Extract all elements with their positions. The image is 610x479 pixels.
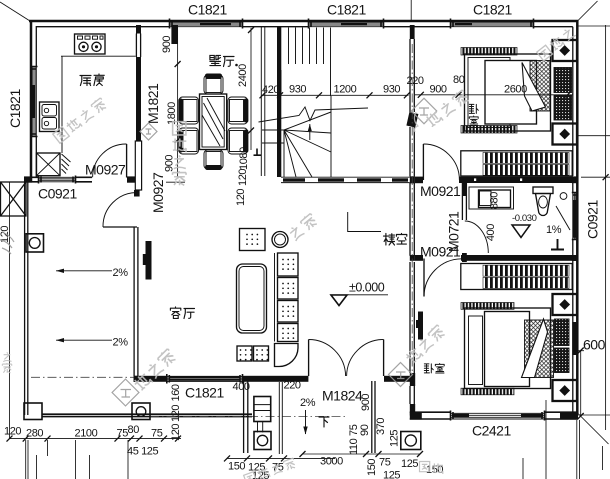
porch step edge lines xyxy=(279,382,282,454)
svg-text:120: 120 xyxy=(235,189,247,206)
svg-text:C1821: C1821 xyxy=(7,89,23,128)
wall left inner face xyxy=(35,26,37,177)
door M0927 kitchen (leaf+arc) xyxy=(93,144,127,178)
svg-text:400: 400 xyxy=(485,224,497,241)
svg-text:C1821: C1821 xyxy=(188,2,227,18)
svg-text:2100: 2100 xyxy=(75,428,98,440)
sofa corner piece xyxy=(275,344,299,367)
svg-text:-0.030: -0.030 xyxy=(512,213,537,224)
stair treads upper flight xyxy=(289,28,331,97)
bed1 pillow diamond area xyxy=(530,61,550,112)
wall hall/bath south / bedroom2 north xyxy=(415,255,573,261)
label keting (living) xyxy=(170,307,194,319)
interior dim line bedroom1 xyxy=(407,74,573,98)
watermark bottom-center xyxy=(243,457,296,479)
coffee table xyxy=(237,264,267,333)
svg-text:75: 75 xyxy=(379,457,391,469)
axis line terrace xyxy=(31,376,134,378)
porch column xyxy=(254,397,271,433)
wall bottom right (bedroom2 south) xyxy=(410,412,578,420)
door M0721 bathroom (arc) xyxy=(465,221,489,253)
level triangle xyxy=(512,225,530,238)
window C1821 top-2 xyxy=(308,19,384,29)
basin counter xyxy=(469,187,514,209)
svg-text:±0.000: ±0.000 xyxy=(349,281,385,295)
stair winder fan xyxy=(284,112,331,177)
terrace front edge xyxy=(42,414,252,416)
wall right inner face xyxy=(572,27,574,412)
dresser hatched 2a xyxy=(555,319,570,346)
axis line entry xyxy=(150,415,348,417)
TV on west wall xyxy=(143,241,152,280)
wall top outer xyxy=(29,20,578,23)
slope arrow 2% lower xyxy=(56,337,128,349)
slope leader line xyxy=(556,206,570,230)
svg-text:900: 900 xyxy=(360,394,372,411)
svg-text:220: 220 xyxy=(407,75,424,87)
svg-text:600: 600 xyxy=(583,337,606,353)
svg-text:120: 120 xyxy=(170,405,182,422)
bed1 quilt fold xyxy=(522,63,546,112)
bed2 quilt fold xyxy=(522,319,548,378)
svg-text:75: 75 xyxy=(151,428,163,440)
svg-text:900: 900 xyxy=(430,84,447,96)
dim line niche vertical xyxy=(177,27,179,177)
svg-text:120: 120 xyxy=(4,426,21,438)
svg-text:M0927: M0927 xyxy=(85,162,126,178)
bed2 rug tassel top xyxy=(461,303,514,310)
entry drain right xyxy=(401,432,421,450)
window C1821 top-1 xyxy=(169,19,243,29)
terrace drain pipe xyxy=(26,234,44,252)
svg-text:45 125: 45 125 xyxy=(127,446,159,458)
bed2 quilt xyxy=(485,312,530,387)
small tick near terrace door xyxy=(166,181,185,183)
corner diagonal bottom-right xyxy=(578,414,609,445)
svg-text:930: 930 xyxy=(289,84,306,96)
svg-text:930: 930 xyxy=(383,84,400,96)
svg-text:M0927: M0927 xyxy=(150,172,166,213)
svg-text:2600: 2600 xyxy=(504,84,527,96)
svg-text:M0921: M0921 xyxy=(420,183,461,199)
slope arrow 2% upper xyxy=(56,267,128,279)
wardrobe 2 xyxy=(461,264,572,290)
corner diagonal top-right xyxy=(578,1,598,21)
watermark vertical column (dining left) xyxy=(172,122,186,186)
watermark diamond + text (bedroom1 area) xyxy=(411,89,470,132)
svg-text:M1824: M1824 xyxy=(322,388,363,404)
terrace left edge rails xyxy=(25,182,28,415)
svg-text:160: 160 xyxy=(170,384,182,401)
bed1 rug tassel top xyxy=(461,48,517,56)
label woshi (bedroom) vertical xyxy=(469,104,478,125)
level mark +-0.000 xyxy=(330,281,388,306)
nightstand 2b xyxy=(553,380,578,401)
svg-text:1080: 1080 xyxy=(238,147,250,170)
svg-text:125: 125 xyxy=(389,430,401,447)
bed1 quilt xyxy=(485,61,537,125)
washbasin xyxy=(479,190,511,208)
dresser hatched 1b xyxy=(554,95,572,120)
watermark top right xyxy=(537,27,577,62)
watermark diagonal bottom-left xyxy=(132,348,177,393)
window C0921 kitchen xyxy=(38,176,76,184)
stair direction arrow xyxy=(308,124,312,140)
slope end marker xyxy=(551,239,564,250)
svg-text:400: 400 xyxy=(233,381,250,393)
stair break line xyxy=(259,107,369,122)
door M1824 entry double leaf right xyxy=(347,339,384,376)
svg-text:3000: 3000 xyxy=(320,456,343,468)
svg-text:420: 420 xyxy=(262,84,279,96)
svg-text:C0921: C0921 xyxy=(38,186,77,202)
wardrobe 1 xyxy=(461,151,572,176)
bottom extension verticals left xyxy=(26,440,128,479)
toilet xyxy=(533,187,553,216)
wall hall east (x410-414.5) xyxy=(406,25,418,416)
dresser hatched 2b xyxy=(555,348,570,373)
wall living south xyxy=(134,376,415,382)
wall stair west xyxy=(277,27,281,177)
svg-text:150: 150 xyxy=(366,459,378,476)
bottom extension verticals right xyxy=(523,400,603,479)
svg-text:370: 370 xyxy=(375,418,387,435)
svg-text:2400: 2400 xyxy=(237,64,249,87)
svg-text:125: 125 xyxy=(401,458,418,470)
wall kitchen/dining (A) xyxy=(136,25,141,141)
svg-text:C0921: C0921 xyxy=(585,200,601,239)
svg-text:125: 125 xyxy=(383,470,400,479)
chair left upper xyxy=(178,97,198,124)
nightstand 1b xyxy=(553,124,578,145)
svg-text:900: 900 xyxy=(161,36,173,53)
watermark box near 150 xyxy=(420,462,444,475)
label chufang (kitchen) xyxy=(80,74,104,86)
label canting (dining) xyxy=(210,55,238,66)
chair bottom xyxy=(204,150,223,170)
svg-text:C1821: C1821 xyxy=(185,385,224,401)
door M0921 bedroom1 (leaf+arc) xyxy=(423,144,459,180)
watermark diamond entry xyxy=(388,362,412,386)
sofa bottom cushions xyxy=(237,346,269,361)
corner column left xyxy=(24,403,42,420)
watermark left edge scribble xyxy=(1,232,14,254)
svg-text:1200: 1200 xyxy=(334,84,357,96)
door M0927 terrace (leaf+arc) xyxy=(103,193,137,228)
svg-text:C1821: C1821 xyxy=(473,2,512,18)
svg-text:M1821: M1821 xyxy=(145,83,161,124)
chair right upper xyxy=(228,97,248,124)
door M0921 bedroom2 (leaf+arc) xyxy=(424,259,462,297)
floor drain xyxy=(560,193,567,200)
window C2421 xyxy=(450,411,545,421)
label woshi 2 xyxy=(424,364,444,374)
label Xia (down) xyxy=(319,417,329,427)
black pier bedroom2 nw xyxy=(418,312,423,340)
svg-text:1%: 1% xyxy=(546,224,562,236)
dim 600 right xyxy=(573,337,606,420)
entry drain left xyxy=(254,432,271,450)
watermark kitchen diagonal xyxy=(52,97,107,144)
AC platform with X xyxy=(1,182,27,216)
bed1 rug tassel bottom xyxy=(461,126,517,134)
porch side wall right xyxy=(372,381,375,453)
wall right outer xyxy=(576,20,579,414)
svg-text:80: 80 xyxy=(128,424,140,436)
bottom-left dim line xyxy=(4,182,181,458)
svg-text:2%: 2% xyxy=(300,397,316,409)
window C0921 right (bathroom) xyxy=(572,192,579,240)
right side dim line xyxy=(605,25,607,430)
nightstand 1a xyxy=(553,40,578,61)
svg-text:2%: 2% xyxy=(113,267,129,279)
svg-text:C2421: C2421 xyxy=(472,423,511,439)
svg-text:150: 150 xyxy=(228,461,245,473)
window C1821 left xyxy=(31,66,38,137)
corner diagonal top-left xyxy=(0,2,30,21)
svg-text:900: 900 xyxy=(164,155,176,172)
wall dining stub (fridge niche) xyxy=(171,25,178,44)
corner column with drain xyxy=(132,403,150,420)
svg-text:120: 120 xyxy=(237,169,249,186)
svg-text:2%: 2% xyxy=(113,337,129,349)
svg-text:C1821: C1821 xyxy=(327,2,366,18)
stair up marker xyxy=(254,149,262,156)
window C1821 living south xyxy=(166,374,243,384)
bed2 pillow diamond area xyxy=(525,320,554,378)
label loukong (void) with leader xyxy=(348,212,407,245)
chair left lower xyxy=(178,128,198,154)
svg-text:75: 75 xyxy=(117,428,129,440)
watermark mid diagonal xyxy=(287,212,318,241)
bed1 frame xyxy=(465,54,551,131)
round side table xyxy=(272,232,288,248)
svg-text:220: 220 xyxy=(284,380,301,392)
kitchen counter edge xyxy=(61,56,136,153)
svg-text:90: 90 xyxy=(359,424,371,436)
wall top inner face xyxy=(37,26,573,28)
svg-text:80: 80 xyxy=(453,74,465,86)
dining table xyxy=(200,94,227,150)
chair right lower xyxy=(228,128,248,154)
extension line top at x411 xyxy=(410,0,412,20)
watermark diamond entry chars xyxy=(404,324,446,366)
wall living west xyxy=(134,141,142,382)
bed2 rug tassel bottom xyxy=(461,388,514,395)
porch side wall left xyxy=(244,381,248,453)
wall bedroom1 south / bath north xyxy=(415,177,573,184)
sink double basin xyxy=(40,102,60,132)
kitchen south wall xyxy=(24,177,141,182)
stair stringer rails xyxy=(261,27,265,176)
watermark left edge small xyxy=(2,352,11,373)
corner cabinet xyxy=(37,153,71,176)
gas stove xyxy=(75,34,106,54)
door M1824 entry double leaf left xyxy=(309,340,346,377)
svg-text:880: 880 xyxy=(489,192,501,209)
sofa right cushions xyxy=(275,253,299,342)
void rail (dashed) xyxy=(281,177,410,182)
watermark diamond bottom-left xyxy=(112,379,139,406)
bed2 frame xyxy=(465,308,551,389)
winder treads left xyxy=(262,130,284,177)
svg-text:280: 280 xyxy=(26,428,43,440)
entry dim lines xyxy=(224,451,443,479)
wall bathroom west xyxy=(462,183,467,262)
dresser hatched 1a xyxy=(554,68,572,93)
nightstand 2a xyxy=(553,294,578,315)
window C1821 top-3 xyxy=(450,19,534,29)
watermark diamond small (near M1821) xyxy=(140,123,157,140)
wall left outer xyxy=(30,20,33,182)
stair landing edge xyxy=(330,96,332,177)
svg-text:M0721: M0721 xyxy=(446,211,462,252)
sofa top cushion xyxy=(240,229,266,251)
down arrow at entry xyxy=(303,410,307,435)
chair top xyxy=(204,74,223,95)
interior dim line stairs xyxy=(260,70,410,98)
